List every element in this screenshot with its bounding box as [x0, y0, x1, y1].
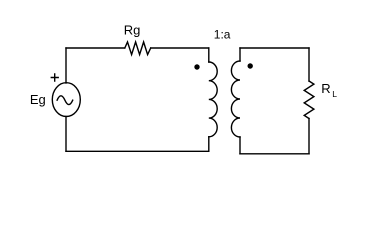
svg-text:R: R	[321, 81, 330, 96]
primary polarity dot	[194, 64, 199, 69]
wire secondary bottom lead	[239, 137, 241, 154]
wire primary top lead	[208, 48, 210, 62]
wire top-left segment	[66, 47, 125, 49]
transformer primary winding	[209, 62, 217, 137]
wire left vertical above source	[65, 48, 67, 83]
wire top of secondary loop	[240, 47, 309, 49]
wire bottom of primary loop	[66, 150, 209, 152]
svg-text:Rg: Rg	[124, 23, 141, 38]
secondary polarity dot	[248, 63, 253, 68]
source Eg circle	[52, 83, 80, 117]
source Eg sine wave	[57, 96, 73, 105]
resistor RL	[304, 81, 314, 119]
resistor Rg	[125, 42, 151, 55]
transformer secondary winding	[231, 61, 240, 137]
svg-text:1:a: 1:a	[214, 28, 231, 42]
wire top from Rg to primary	[151, 47, 209, 49]
wire left vertical below source	[65, 117, 67, 152]
svg-text:L: L	[332, 89, 337, 99]
wire secondary top lead	[239, 48, 241, 61]
svg-text:Eg: Eg	[30, 92, 46, 107]
plus sign polarity	[51, 74, 58, 81]
wire right vertical above RL	[308, 48, 310, 81]
wire right vertical below RL	[308, 119, 310, 154]
wire primary bottom lead	[208, 137, 210, 152]
wire bottom of secondary loop	[240, 153, 309, 155]
